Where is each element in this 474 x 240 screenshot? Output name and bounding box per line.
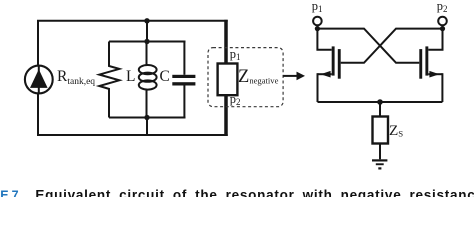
wire p2 to Q1 gate (cross) xyxy=(341,29,443,63)
node source rail xyxy=(377,99,383,105)
svg-text:p1: p1 xyxy=(312,0,323,14)
impedance box Z_negative xyxy=(218,64,238,96)
node p2 xyxy=(440,26,445,31)
terminal p2 xyxy=(438,17,447,26)
svg-text:p2: p2 xyxy=(437,0,448,14)
arrow to cross-coupled pair xyxy=(283,72,305,81)
wire p1 to Q2 gate (cross) xyxy=(317,29,419,63)
dashed box Z_negative xyxy=(208,48,283,107)
wire to Z_S xyxy=(379,102,381,117)
wire inductor branch top xyxy=(146,21,148,42)
wire Q2 source down xyxy=(441,73,443,102)
node top rail / inductor branch xyxy=(144,18,149,23)
wire Z_S to ground xyxy=(379,144,381,160)
wire inductor branch bottom xyxy=(146,118,148,136)
svg-text:p1: p1 xyxy=(230,47,241,62)
wire p1 to Q1 drain xyxy=(317,29,331,50)
svg-text:Znegative: Znegative xyxy=(238,67,279,87)
wire Z_negative top (thick) xyxy=(224,20,228,64)
svg-text:C: C xyxy=(160,68,170,85)
wire bottom rail xyxy=(38,93,228,135)
ground xyxy=(372,159,387,169)
wire inner top rail xyxy=(109,41,186,43)
node p1 xyxy=(315,26,320,31)
svg-text:Equivalent circuit of the reso: Equivalent circuit of the resonator with… xyxy=(35,188,474,197)
wire Q1 source down xyxy=(317,73,319,102)
wire source rail xyxy=(318,101,443,103)
wire p1 stub xyxy=(316,25,318,29)
wire p2 stub xyxy=(442,25,444,29)
wire Z_negative bottom (thick) xyxy=(224,95,228,136)
svg-text:L: L xyxy=(126,68,135,85)
svg-text:E 7.: E 7. xyxy=(0,189,21,197)
node inner rail bottom xyxy=(144,115,149,120)
inductor L xyxy=(139,42,157,118)
node inner rail top xyxy=(144,39,149,44)
capacitor C xyxy=(172,42,195,118)
svg-text:Rtank,eq: Rtank,eq xyxy=(57,68,95,87)
svg-text:p2: p2 xyxy=(230,92,241,107)
transistor Q2 xyxy=(419,46,442,78)
current source I xyxy=(25,66,53,94)
resistor R_tank,eq xyxy=(99,42,119,118)
wire inner bottom rail xyxy=(109,117,186,119)
terminal p1 xyxy=(313,17,322,26)
wire p2 to Q2 drain xyxy=(428,29,442,50)
svg-text:ZS: ZS xyxy=(389,122,403,139)
impedance box Z_S xyxy=(373,117,389,144)
wire top rail xyxy=(38,21,228,66)
transistor Q1 xyxy=(318,46,341,78)
